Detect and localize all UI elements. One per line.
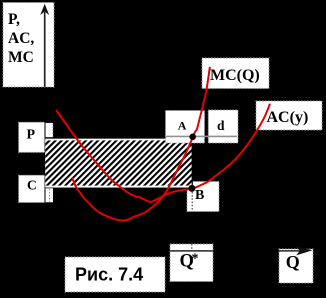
point A dot [189, 134, 196, 141]
y-axis line with arrowhead [40, 4, 49, 87]
svg-text:*: * [192, 252, 199, 267]
label box Рис. 7.4 [65, 257, 165, 292]
demand line d [166, 135, 237, 137]
svg-text:B: B [195, 188, 204, 203]
svg-text:d: d [217, 118, 225, 133]
svg-text:AC,: AC, [8, 30, 34, 47]
svg-text:AC(y): AC(y) [267, 109, 309, 126]
curve MC(Q) [72, 67, 210, 221]
svg-text:P,: P, [8, 11, 20, 28]
label box Q with x-axis arrowhead [279, 246, 313, 283]
dotted drop line inside B box [191, 192, 193, 211]
hatched profit rectangle PABC [44, 138, 192, 189]
label box d [208, 110, 238, 143]
svg-text:Рис. 7.4: Рис. 7.4 [75, 265, 143, 285]
label box AC(y) [256, 101, 322, 130]
label box C [19, 175, 45, 202]
point B dot [188, 185, 195, 192]
label box MC(Q) [202, 58, 269, 89]
svg-text:A: A [178, 119, 187, 133]
svg-text:P: P [27, 128, 36, 143]
white strip fragment below hatch (y-axis box) [44, 188, 53, 202]
label box Q* [170, 244, 213, 282]
label box P [19, 122, 45, 152]
label box B [187, 182, 219, 212]
curve AC(y) [56, 104, 270, 202]
svg-text:MC(Q): MC(Q) [210, 67, 260, 84]
label box A [166, 111, 205, 144]
axis label box P,AC,MC [3, 3, 54, 88]
svg-text:MC: MC [8, 49, 34, 66]
svg-text:C: C [27, 178, 37, 193]
svg-text:Q: Q [286, 252, 300, 272]
white strip fragment above hatch (y-axis box) [44, 123, 53, 137]
